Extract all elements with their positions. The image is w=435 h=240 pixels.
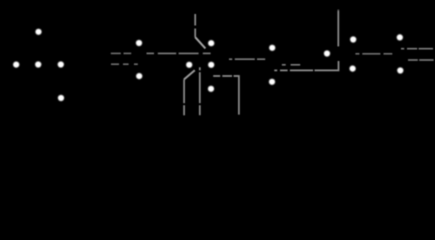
node A xyxy=(35,29,41,35)
wire: horizontal at y=76 turning down at x=239 xyxy=(213,76,239,115)
node I xyxy=(208,40,214,46)
wire: horizontal at y=70 turning up at x=338 xyxy=(274,61,338,70)
node H xyxy=(186,62,192,68)
node P xyxy=(350,66,356,72)
wire: vertical at x=184 xyxy=(183,80,185,116)
switch S1 diagonal blade xyxy=(195,37,205,48)
node J xyxy=(208,62,214,68)
node R xyxy=(397,67,403,73)
node O xyxy=(350,36,356,42)
wire: horizontal net at y=60 far right (dashed) xyxy=(408,59,434,61)
wire: horizontal net at y=53 (dashed) xyxy=(111,52,131,54)
node G xyxy=(136,73,142,79)
transistor Q1 diagonal emitter stroke xyxy=(184,70,195,79)
node K xyxy=(208,86,214,92)
node B xyxy=(13,62,19,68)
wire: horizontal stub at y=65 (dashed) xyxy=(282,64,300,66)
node D xyxy=(58,61,64,67)
node C xyxy=(35,61,41,67)
node M xyxy=(269,79,275,85)
node F xyxy=(136,40,142,46)
wire: horizontal net at y=59 (dashed) xyxy=(229,58,265,60)
wire: horizontal net at y=49 far right (dashed) xyxy=(401,48,433,50)
node N xyxy=(324,50,330,56)
node L xyxy=(269,45,275,51)
wire: vertical segment upper left of switch S1 xyxy=(194,14,196,37)
node Q xyxy=(397,34,403,40)
wire: horizontal stub at y=64 (dashed) xyxy=(111,63,138,65)
wire: vertical at x=338 top xyxy=(337,10,339,47)
wire: vertical at x=200 xyxy=(199,67,201,115)
wire: horizontal net at y=54 right (dashed) xyxy=(355,53,392,55)
node E xyxy=(58,95,64,101)
